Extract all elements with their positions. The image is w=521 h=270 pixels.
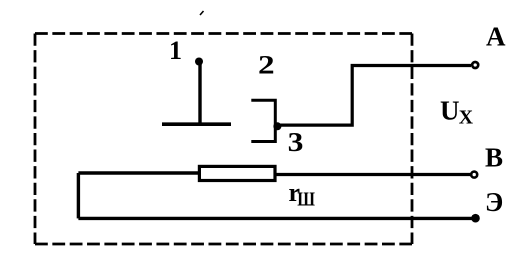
- node 3 junction dot: [273, 122, 281, 130]
- svg-text:1: 1: [169, 36, 182, 65]
- dashed enclosure box left edge: [34, 34, 37, 245]
- terminal E dot: [471, 214, 480, 223]
- svg-text:U: U: [440, 96, 460, 126]
- svg-text:X: X: [459, 107, 474, 129]
- svg-text:2: 2: [258, 51, 275, 80]
- dashed enclosure box bottom edge: [35, 243, 412, 246]
- resistor r_sh body: [199, 166, 275, 180]
- contact 1 plate: [162, 122, 231, 126]
- contact 2-3 bracket: [251, 100, 275, 141]
- svg-text:Ш: Ш: [297, 190, 315, 211]
- left vertical wire: [77, 173, 80, 218]
- terminal B circle: [471, 172, 477, 178]
- svg-text:3: 3: [288, 128, 304, 157]
- svg-text:B: B: [485, 143, 503, 173]
- bottom wire to terminal E: [78, 217, 472, 220]
- node 3 label: [288, 128, 304, 157]
- terminal A circle: [472, 62, 478, 68]
- svg-text:A: A: [486, 22, 506, 52]
- wire resistor to terminal B: [275, 173, 471, 176]
- dashed enclosure box right edge: [411, 34, 414, 245]
- svg-text:Э: Э: [485, 187, 503, 217]
- speck artifact above box: [200, 11, 204, 15]
- contact 1 stem wire: [198, 61, 201, 124]
- dashed enclosure box top edge: [35, 32, 412, 35]
- wire left to resistor: [78, 171, 200, 174]
- wire node3 to terminal A: [277, 66, 471, 126]
- contact 1 dot: [195, 58, 203, 66]
- node 2 label: [258, 51, 275, 80]
